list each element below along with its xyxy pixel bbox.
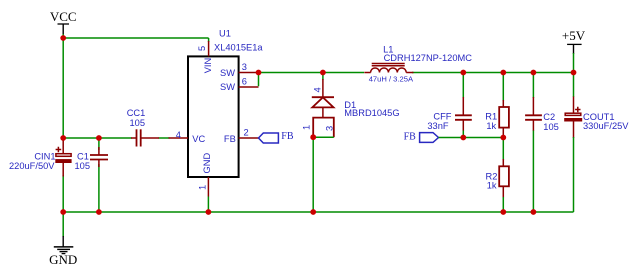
svg-text:47uH / 3.25A: 47uH / 3.25A <box>369 74 414 83</box>
junction C2 top <box>531 70 537 76</box>
U1 pin 5 VIN <box>197 38 213 73</box>
svg-text:VIN: VIN <box>203 58 213 74</box>
wire GND drop <box>62 212 64 237</box>
junction D1 top <box>320 70 326 76</box>
capacitor CFF <box>427 73 471 138</box>
svg-text:2: 2 <box>244 128 249 138</box>
wire L1 right to +5V <box>412 72 574 74</box>
capacitor CC1 <box>127 108 159 146</box>
junction FB R1 R2 <box>500 135 506 141</box>
junction D1 bottom <box>310 209 316 215</box>
capacitor C1 <box>75 147 109 171</box>
junction SW node <box>256 70 262 76</box>
junction +5V <box>571 70 577 76</box>
junction R1 top <box>500 70 506 76</box>
junction CIN1 bottom <box>60 209 66 215</box>
svg-text:MBRD1045G: MBRD1045G <box>344 108 399 118</box>
junction C1 top <box>96 135 102 141</box>
net flag FB at U1 pin2 <box>259 131 294 143</box>
junction D1 anode <box>310 134 316 140</box>
capacitor C2 <box>525 73 559 213</box>
svg-text:220uF/50V: 220uF/50V <box>9 161 55 171</box>
junction R2 bottom <box>500 209 506 215</box>
svg-text:1: 1 <box>198 185 208 190</box>
wire D1 down to rail <box>312 137 314 212</box>
junction CFF bottom <box>460 135 466 141</box>
svg-text:4: 4 <box>313 87 323 92</box>
wire COUT1 down to rail <box>573 137 575 212</box>
wire pin6 up connector <box>258 73 260 87</box>
net flag FB feedback node <box>404 131 439 142</box>
svg-text:330uF/25V: 330uF/25V <box>583 121 629 131</box>
svg-text:GND: GND <box>202 153 212 174</box>
svg-text:3: 3 <box>325 126 335 131</box>
svg-text:U1: U1 <box>219 29 231 39</box>
wire C1 branch vertical <box>98 138 100 150</box>
svg-text:105: 105 <box>543 122 559 132</box>
resistor R2 <box>486 138 509 213</box>
junction VCC <box>60 35 66 41</box>
svg-text:FB: FB <box>281 131 294 142</box>
wire D1 pin1 to pin3 <box>313 136 334 138</box>
svg-text:SW: SW <box>220 68 235 78</box>
capacitor COUT1 <box>564 97 629 139</box>
resistor R1 <box>485 73 509 138</box>
power flag VCC <box>50 9 77 34</box>
wire CC1 to VC green gap <box>159 137 170 139</box>
ground symbol GND <box>49 236 77 267</box>
svg-text:105: 105 <box>130 118 146 128</box>
wire SW output rail <box>259 72 365 74</box>
U1 pin 4 VC <box>169 130 206 144</box>
svg-text:C1: C1 <box>77 152 89 162</box>
svg-text:SW: SW <box>220 82 235 92</box>
wire C1 bottom <box>98 164 100 212</box>
inductor L1 <box>364 45 472 84</box>
wire VCC left rail vertical <box>62 34 64 141</box>
svg-text:5: 5 <box>197 46 207 51</box>
capacitor CIN1 <box>9 140 72 177</box>
svg-text:VCC: VCC <box>50 9 77 24</box>
wire FB node horizontal <box>439 137 504 139</box>
junction CFF top <box>460 70 466 76</box>
U1 pin 2 FB <box>224 128 259 144</box>
svg-text:33nF: 33nF <box>427 121 449 131</box>
svg-text:CC1: CC1 <box>127 108 146 118</box>
junction C1 bottom <box>96 209 102 215</box>
svg-text:6: 6 <box>242 77 247 87</box>
power flag +5V <box>562 28 586 54</box>
svg-text:3: 3 <box>242 62 247 72</box>
wire mid VC horizontal <box>63 137 132 139</box>
svg-text:C2: C2 <box>543 112 555 122</box>
svg-text:CIN1: CIN1 <box>34 152 55 162</box>
wire bottom GND rail <box>63 211 573 213</box>
svg-text:4: 4 <box>176 130 181 140</box>
svg-text:1k: 1k <box>486 121 496 131</box>
svg-text:FB: FB <box>404 131 417 142</box>
svg-text:FB: FB <box>224 134 236 144</box>
U1 pin 6 SW <box>220 77 258 93</box>
U1 pin 3 SW <box>220 62 258 78</box>
wire +5V down <box>573 53 575 97</box>
junction U1 GND bottom <box>206 209 212 215</box>
svg-text:VC: VC <box>192 134 205 144</box>
diode D1 <box>302 73 400 138</box>
svg-text:GND: GND <box>49 252 77 267</box>
wire VCC top horizontal <box>63 37 208 39</box>
junction C2 bottom <box>531 209 537 215</box>
svg-text:XL4015E1a: XL4015E1a <box>214 42 263 52</box>
svg-text:1k: 1k <box>487 181 497 191</box>
svg-text:CDRH127NP-120MC: CDRH127NP-120MC <box>384 53 473 63</box>
wire left rail below CIN1 <box>62 175 64 212</box>
U1 pin 1 GND <box>198 153 212 212</box>
svg-text:+5V: +5V <box>562 28 586 43</box>
junction CIN1 top <box>60 135 66 141</box>
svg-text:1: 1 <box>302 125 312 130</box>
regulator IC U1 XL4015E1a body <box>188 29 263 178</box>
svg-text:105: 105 <box>75 161 91 171</box>
